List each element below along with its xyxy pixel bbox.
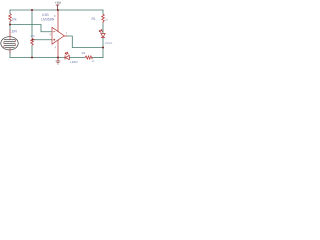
svg-text:1k: 1k [105,17,109,21]
svg-text:8: 8 [54,14,56,18]
svg-text:1k: 1k [91,59,95,63]
svg-text:R1: R1 [92,17,96,21]
svg-text:10k: 10k [12,17,18,21]
svg-text:U1B: U1B [42,13,49,17]
svg-text:6: 6 [50,33,52,36]
svg-text:LM358N: LM358N [41,18,55,22]
svg-text:LED1: LED1 [105,41,113,45]
svg-text:+9V: +9V [55,1,62,5]
svg-text:R2: R2 [82,51,86,55]
svg-text:LED2: LED2 [70,60,78,64]
svg-text:LDR: LDR [10,29,18,33]
svg-text:7: 7 [66,31,68,35]
svg-text:4: 4 [55,46,57,50]
svg-text:10k: 10k [30,34,35,38]
